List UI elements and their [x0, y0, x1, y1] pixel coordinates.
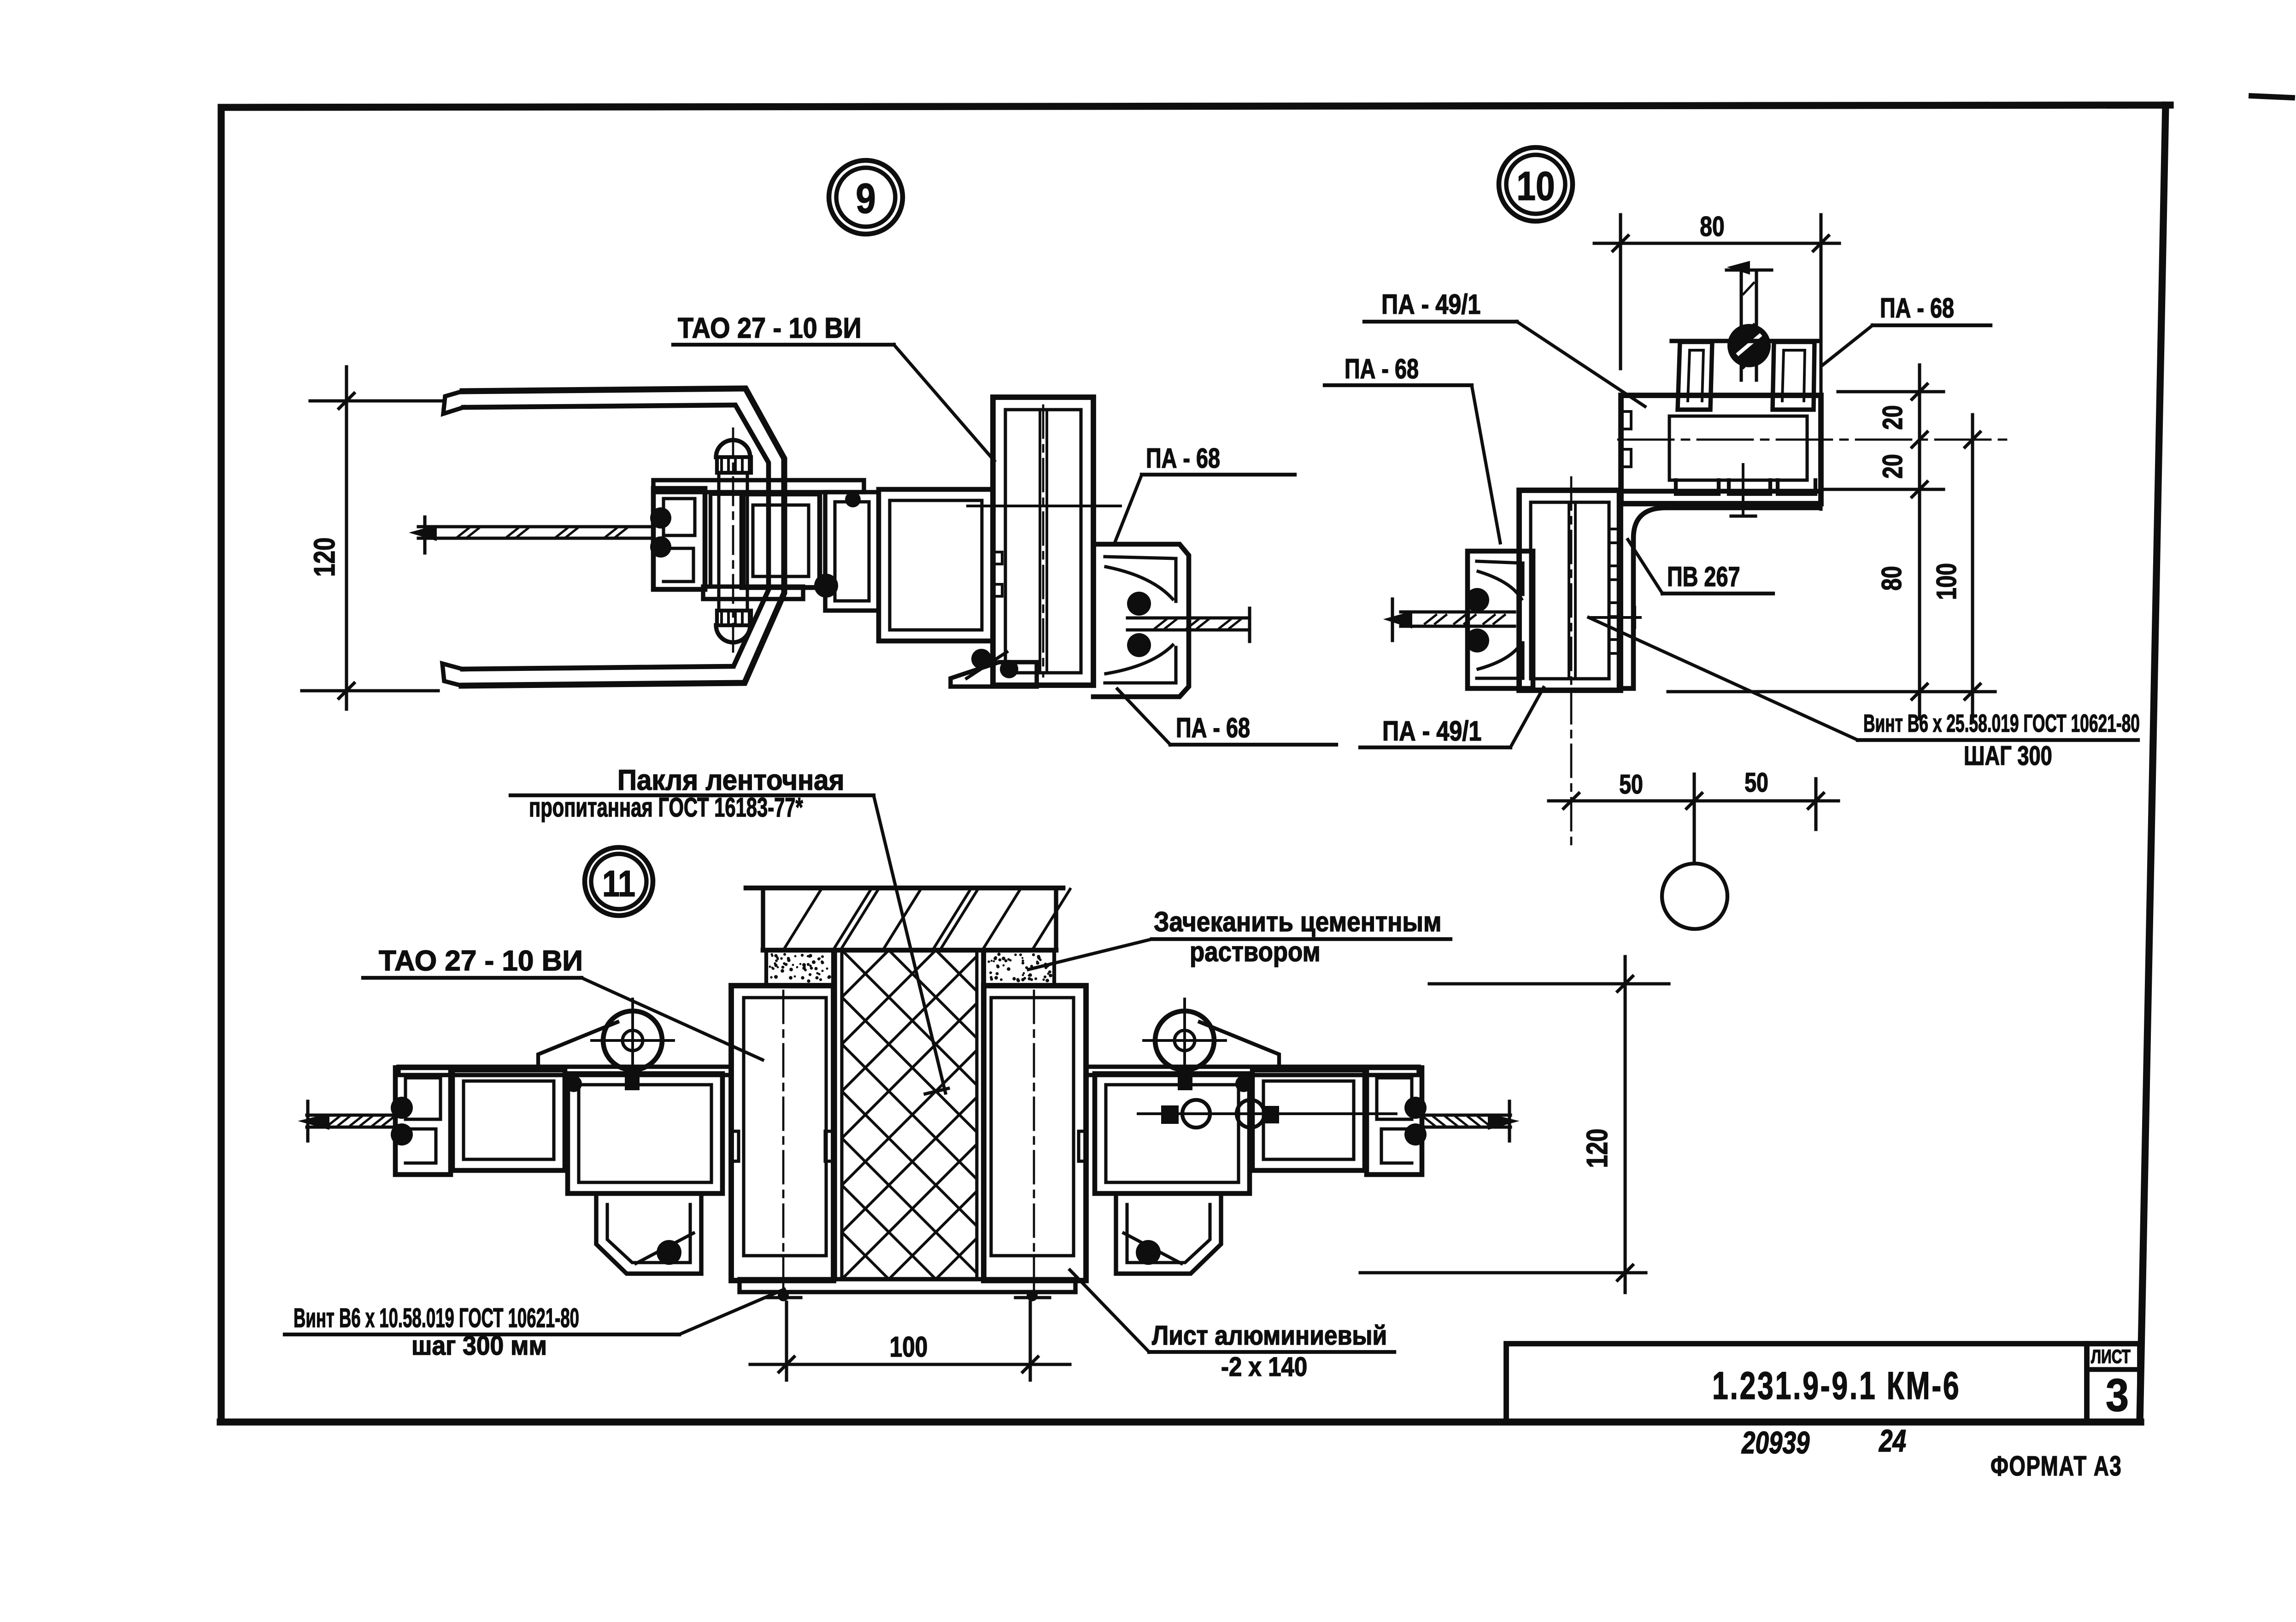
dimension 80 line top (detail 10) [1594, 241, 1839, 245]
svg-text:ШАГ 300: ШАГ 300 [1964, 741, 2052, 771]
svg-text:ТАО 27 - 10 ВИ: ТАО 27 - 10 ВИ [379, 945, 583, 977]
brick wall hatching (detail 11) [783, 888, 822, 950]
leader ТАО 27-10ВИ (detail 11) [581, 978, 763, 1060]
hinge frame box (detail 9) [742, 494, 820, 588]
detail 10 view circle [1499, 147, 1573, 221]
svg-text:Зачеканить цементным: Зачеканить цементным [1154, 907, 1441, 938]
glass pane left (detail 10) [1401, 610, 1515, 613]
leader Винт to screw (detail 10) [1589, 617, 1858, 740]
wing sash box [568, 1074, 722, 1193]
leader Пакля to oakum column [874, 795, 945, 1093]
dimension line 20/20/80 (detail 10) [1918, 365, 1921, 719]
main vertical profile centerline (detail 10) [1570, 477, 1573, 846]
dimension 100 witness right (detail 11) [1028, 1302, 1032, 1380]
hinge bolt collar top (hatched) [717, 457, 751, 473]
leader ПА-49/1 top (detail 10) [1517, 322, 1645, 406]
wing glazing gasket blobs [391, 1097, 413, 1119]
svg-text:24: 24 [1879, 1423, 1906, 1458]
wing glass pane [307, 1113, 394, 1117]
svg-text:20939: 20939 [1741, 1425, 1809, 1460]
seal blob lower (detail 9) [814, 574, 838, 598]
hinge bolt shaft [717, 473, 720, 608]
cap profile small left (detail 10) [1468, 551, 1533, 688]
wing foot wedge [636, 1233, 693, 1264]
svg-text:ПА - 49/1: ПА - 49/1 [1381, 289, 1480, 320]
leader Винт to plate screw (detail 11) [679, 1289, 784, 1334]
wing top flange plate [399, 1067, 731, 1075]
C-clamp top-left hook [443, 391, 464, 414]
svg-text:20: 20 [1877, 454, 1908, 478]
svg-text:50: 50 [1619, 770, 1643, 799]
oakum column cross hatching (detail 11) [513, 950, 1265, 1279]
screw axis mark (detail 10) [1591, 616, 1640, 619]
center mark below main box (detail 10) [1742, 464, 1744, 515]
svg-text:3: 3 [2106, 1370, 2129, 1421]
glass pane left (detail 9) [418, 525, 651, 528]
leader ПА-68 upper (detail 9) [1114, 475, 1142, 544]
anchor box right centerline (detail 11) [1033, 991, 1035, 1290]
angle profile ПВ-267 (detail 10) [1619, 491, 1820, 688]
hinge bolt collar bottom (hatched) [717, 611, 751, 625]
leader ПА-68 right (detail 10) [1823, 325, 1873, 365]
dimension 120 line (detail 9) [345, 367, 348, 709]
anchor box left centerline (detail 11) [782, 991, 785, 1290]
svg-text:Винт В6 х 25.58.019 ГОСТ 10621: Винт В6 х 25.58.019 ГОСТ 10621-80 [1863, 709, 2140, 737]
svg-text:ПА - 68: ПА - 68 [1345, 353, 1419, 384]
svg-text:100: 100 [1931, 563, 1962, 600]
glass top tick (detail 10) [1726, 268, 1772, 271]
dimension 120 line right (detail 11) [1623, 957, 1627, 1293]
svg-text:100: 100 [890, 1331, 928, 1363]
svg-text:Лист алюминиевый: Лист алюминиевый [1152, 1320, 1387, 1350]
anchor box right ТАО (detail 11) [984, 986, 1086, 1281]
svg-text:ФОРМАТ А3: ФОРМАТ А3 [1991, 1451, 2122, 1481]
wing hinge pin [625, 1070, 640, 1090]
title block outline [1506, 1344, 2140, 1422]
svg-text:Винт В6 х 10.58.019 ГОСТ 106: Винт В6 х 10.58.019 ГОСТ 10621-80 [294, 1304, 579, 1334]
svg-text:ТАО 27 - 10 ВИ: ТАО 27 - 10 ВИ [678, 312, 862, 344]
glass end tick left (detail 10) [1391, 599, 1394, 641]
dimension 120 witness bottom (detail 9) [302, 689, 438, 692]
glass end tick right (detail 9) [1248, 608, 1251, 641]
mullion foot sill (detail 9) [951, 662, 1037, 687]
brick wall band (detail 11) [746, 886, 1063, 891]
main box centerline (detail 10) [1618, 439, 2009, 441]
C-clamp profile outer contour [462, 388, 784, 686]
section plane line through mullion (detail 9) [968, 505, 1121, 507]
wing hinge circle [603, 1011, 662, 1070]
leader Зачеканить to mortar [1028, 939, 1152, 970]
dimension line 100 (detail 10) [1971, 415, 1974, 719]
svg-text:-2 х 140: -2 х 140 [1221, 1352, 1307, 1382]
leader Лист алюминиевый (detail 11) [1070, 1270, 1149, 1352]
C-clamp bottom-left hook [442, 664, 463, 686]
main vertical profile ПА-49/1 (detail 10) [1519, 490, 1621, 690]
dimension 120 witness top (detail 9) [310, 399, 444, 402]
leader ТАО 27-10ВИ to mullion [894, 345, 994, 461]
dimension 80 witness right [1819, 215, 1822, 509]
detail 9 view circle [829, 160, 903, 234]
svg-text:80: 80 [1700, 211, 1724, 242]
mullion centerline (detail 9) [1042, 405, 1045, 676]
frame big box (detail 9) [879, 489, 993, 641]
leader ПА-68 lower (detail 9) [1117, 689, 1170, 745]
anchor box left ТАО (detail 11) [731, 986, 834, 1281]
cap profile ПА-68 right (detail 9) [1093, 544, 1189, 697]
glazing gasket ball (detail 10) [1727, 324, 1771, 367]
svg-text:ПА - 68: ПА - 68 [1176, 712, 1250, 743]
dimension 100 line (detail 11) [750, 1363, 1070, 1366]
glazing gasket blobs (detail 9 left) [650, 507, 671, 529]
dimension 50 witness right (detail 10) [1814, 779, 1817, 829]
wing foot gasket blob [657, 1240, 681, 1265]
C-clamp profile inner contour [463, 405, 769, 669]
drawing sheet border frame [220, 105, 2170, 1422]
hinge bolt centerline [732, 429, 734, 659]
sash profile thin box (detail 9) [825, 492, 879, 611]
svg-text:11: 11 [602, 863, 635, 904]
detail 11 view circle [585, 847, 653, 916]
svg-text:ПА - 68: ПА - 68 [1880, 293, 1954, 323]
svg-text:10: 10 [1516, 164, 1555, 209]
dimension 50 50 line (detail 10) [1549, 799, 1838, 802]
leader ПВ 267 (detail 10) [1628, 540, 1662, 594]
svg-text:ЛИСТ: ЛИСТ [2091, 1346, 2131, 1368]
hinge bolt dome head bottom [716, 625, 750, 642]
title block divider ЛИСТ column [2084, 1344, 2090, 1422]
foot gasket blobs (detail 9) [971, 649, 992, 669]
top flange plate (detail 9) [653, 480, 864, 492]
cap profile ПА-49/1 upper legs (detail 10) [1678, 342, 1712, 410]
cement mortar right (detail 11) [984, 951, 1054, 984]
main box feet (detail 10) [1676, 480, 1719, 494]
bottom flange plate (detail 9) [703, 587, 803, 599]
glazing gasket blobs (detail 10) [1465, 588, 1489, 612]
wing glass end tick [306, 1101, 309, 1141]
svg-text:120: 120 [309, 537, 341, 576]
svg-text:20: 20 [1877, 405, 1908, 429]
oakum column outline (detail 11) [833, 950, 837, 1279]
cement mortar left (detail 11) [766, 951, 833, 984]
svg-text:1.231.9-9.1 КМ-6: 1.231.9-9.1 КМ-6 [1712, 1364, 1961, 1407]
bottom plate screws (detail 11) [778, 1290, 789, 1301]
svg-text:120: 120 [1581, 1128, 1614, 1168]
wing hinge bracket plate [538, 1022, 617, 1067]
glass end tick left (detail 9) [423, 517, 426, 553]
svg-text:шаг 300 мм: шаг 300 мм [411, 1331, 547, 1361]
wing sill foot [596, 1193, 701, 1274]
dimension witness 80 bottom (detail 10) [1668, 690, 1995, 693]
glazing gasket blobs (detail 9 right) [1127, 592, 1151, 616]
glass pane up (detail 10) [1739, 271, 1743, 380]
left wing assembly (detail 11) [303, 999, 731, 1274]
hinge bolt dome head top [716, 440, 750, 457]
wing glazing cap box [395, 1068, 451, 1175]
svg-text:9: 9 [856, 175, 875, 222]
dimension 120 witness bottom right (detail 11) [1360, 1271, 1646, 1274]
seal blob upper (detail 9) [845, 492, 861, 507]
dimension witness 20 bottom (detail 10) [1824, 488, 1944, 491]
datum circle below detail 10 [1662, 864, 1727, 929]
leader ПА-49/1 bottom (detail 10) [1510, 688, 1544, 747]
svg-text:Пакля ленточная: Пакля ленточная [617, 764, 845, 796]
dimension 50 witness middle (detail 10) [1692, 774, 1696, 863]
leader ПА-68 left (detail 10) [1472, 385, 1500, 543]
right wing bolt screws (detail 11) [1138, 1112, 1396, 1115]
dimension 100 witness left (detail 11) [785, 1302, 788, 1380]
glazing cap box (detail 9) [653, 488, 705, 589]
main box ПА-68 horizontal (detail 10) [1621, 395, 1821, 504]
dimension 80 witness left [1619, 215, 1622, 369]
glass pane right (detail 9) [1127, 616, 1250, 619]
svg-text:ПВ 267: ПВ 267 [1667, 561, 1740, 592]
svg-text:ПА - 68: ПА - 68 [1146, 443, 1220, 474]
wing seal blob [565, 1075, 582, 1092]
svg-text:ПА - 49/1: ПА - 49/1 [1382, 716, 1481, 746]
svg-text:80: 80 [1876, 566, 1907, 590]
hinge pivot plate [711, 494, 744, 587]
mullion profile ТАО (detail 9) [993, 397, 1093, 685]
dimension witness 20 top (detail 10) [1838, 390, 1944, 393]
svg-text:50: 50 [1744, 768, 1768, 798]
right wing assembly mirrored (detail 11) [1086, 999, 1514, 1274]
wing frame box [452, 1070, 565, 1170]
aluminium sheet bottom plate (detail 11) [740, 1279, 1075, 1292]
dimension 120 witness top right (detail 11) [1429, 982, 1669, 985]
